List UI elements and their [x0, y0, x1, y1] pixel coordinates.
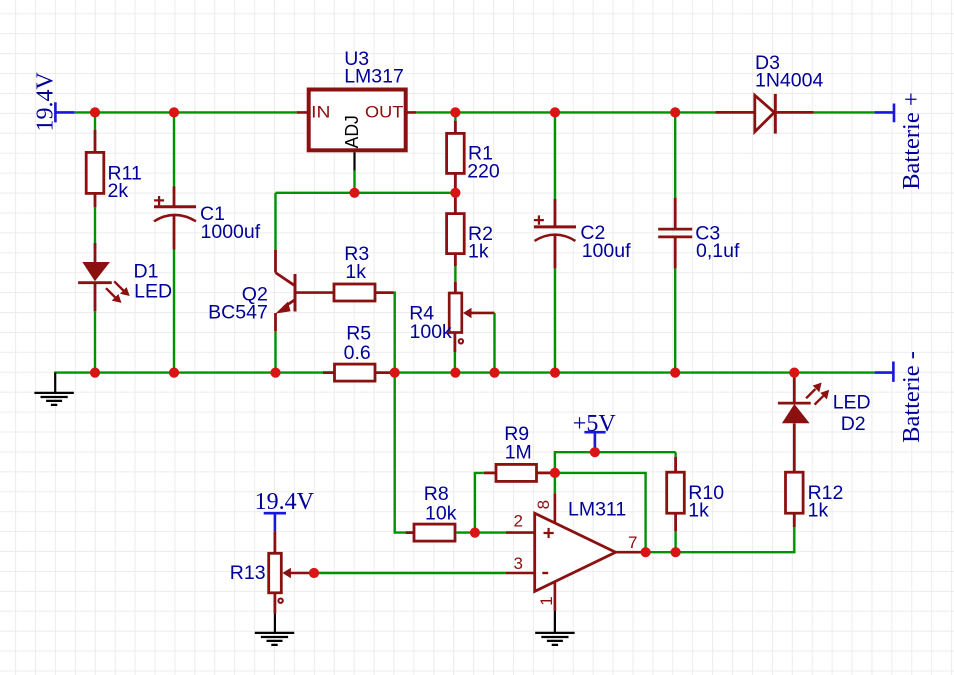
svg-text:1k: 1k	[808, 500, 829, 522]
svg-text:OUT: OUT	[365, 102, 403, 121]
wire R8 to pin2 node	[456, 531, 506, 533]
wire C1 to bottom rail	[173, 250, 175, 373]
svg-text:10k: 10k	[425, 503, 457, 525]
svg-text:D2: D2	[841, 413, 866, 435]
svg-text:R13: R13	[230, 562, 266, 584]
node +5V supply pin	[584, 432, 605, 452]
svg-text:100k: 100k	[410, 321, 453, 343]
svg-text:1: 1	[537, 596, 556, 605]
op U3 LM317 regulator	[297, 90, 417, 151]
wire pin3 net (R13 wiper to pin 3)	[314, 572, 506, 574]
potentiometer R13	[269, 531, 314, 613]
wire bottom rail right	[394, 371, 875, 373]
svg-text:+5V: +5V	[573, 411, 617, 437]
wire C3 to bottom rail	[674, 269, 676, 373]
wire ADJ down to adj net	[353, 171, 355, 193]
svg-text:IN: IN	[311, 103, 330, 122]
potentiometer R4	[449, 282, 494, 352]
resistor R12	[786, 444, 804, 527]
resistor R8	[406, 524, 455, 541]
resistor R10	[667, 452, 685, 552]
svg-text:1k: 1k	[688, 500, 709, 522]
svg-text:0.6: 0.6	[344, 342, 371, 364]
wire C2 to bottom rail	[554, 269, 556, 373]
svg-text:1N4004: 1N4004	[755, 70, 823, 92]
transistor Q2 BC547	[275, 250, 334, 331]
resistor R11	[86, 112, 104, 207]
wire adj net horizontal (Q2 collector to R1/R2 node)	[276, 192, 456, 194]
wire top rail right (U3 OUT to D3)	[416, 111, 715, 113]
wire +5V rail	[555, 452, 676, 473]
capacitor C1	[154, 112, 196, 249]
svg-text:BC547: BC547	[208, 302, 268, 324]
ground (left)	[34, 373, 73, 405]
resistor R9	[484, 464, 552, 481]
wire R4 wiper to rail	[493, 313, 495, 373]
node Batterie + pin	[875, 104, 894, 123]
svg-text:LM311: LM311	[568, 499, 626, 521]
wire top rail left (19.4V to U3 IN)	[75, 111, 297, 113]
ground (R13)	[255, 614, 294, 645]
resistor R1	[447, 112, 465, 192]
svg-text:8: 8	[534, 500, 553, 509]
svg-text:LED: LED	[134, 280, 172, 302]
capacitor C3	[658, 112, 692, 268]
node Batterie - pin	[875, 362, 894, 382]
resistor R2	[447, 193, 465, 266]
wire top rail (D3 to Batterie +)	[814, 111, 875, 113]
ground (LM311 pin1)	[535, 611, 574, 645]
wire feedback (pin8 node to output)	[555, 473, 646, 552]
wire R11 to D1	[94, 207, 96, 248]
svg-text:ADJ: ADJ	[341, 115, 362, 148]
svg-text:220: 220	[467, 161, 500, 183]
wire R2 to R4	[454, 266, 456, 282]
svg-text:2: 2	[514, 511, 523, 530]
capacitor C2	[534, 112, 576, 268]
wire D1 to bottom rail	[94, 311, 96, 372]
svg-text:Batterie +: Batterie +	[898, 92, 925, 190]
svg-text:1M: 1M	[505, 442, 532, 464]
wire R4 bottom to rail	[454, 352, 456, 373]
svg-text:LM317: LM317	[344, 66, 404, 88]
svg-text:1000uf: 1000uf	[201, 221, 261, 243]
svg-text:D1: D1	[134, 261, 159, 283]
svg-text:2k: 2k	[108, 180, 129, 202]
resistor R5	[323, 364, 394, 381]
node 19.4V supply pin (bottom)	[264, 513, 286, 531]
wire output to R12 bottom	[646, 527, 795, 552]
svg-text:Batterie -: Batterie -	[898, 351, 925, 443]
diode D1 LED	[78, 243, 130, 311]
wire Q2 collector drop	[274, 193, 276, 250]
wire pin2 node up to R9	[475, 473, 484, 533]
svg-text:19.4V: 19.4V	[255, 489, 315, 515]
svg-text:7: 7	[628, 533, 637, 552]
pin ADJ stub	[353, 152, 355, 170]
svg-text:19.4V: 19.4V	[33, 72, 59, 132]
svg-text:0,1uf: 0,1uf	[696, 240, 740, 262]
wire Q2 emitter to bottom rail	[274, 331, 276, 373]
wire R3 to sense node	[394, 293, 395, 373]
node 19.4V supply pin (top left)	[55, 102, 74, 122]
svg-text:100uf: 100uf	[582, 240, 631, 262]
op-amp U LM311	[506, 473, 646, 611]
diode D2 LED	[778, 373, 829, 444]
svg-text:1k: 1k	[468, 241, 489, 263]
svg-text:3: 3	[514, 554, 523, 573]
diode D3 1N4004	[715, 94, 813, 134]
wire sense node down to R8	[395, 373, 406, 533]
svg-text:LED: LED	[833, 391, 871, 413]
wire bottom rail left	[54, 371, 323, 373]
svg-text:1k: 1k	[345, 261, 366, 283]
resistor R3	[334, 284, 394, 301]
